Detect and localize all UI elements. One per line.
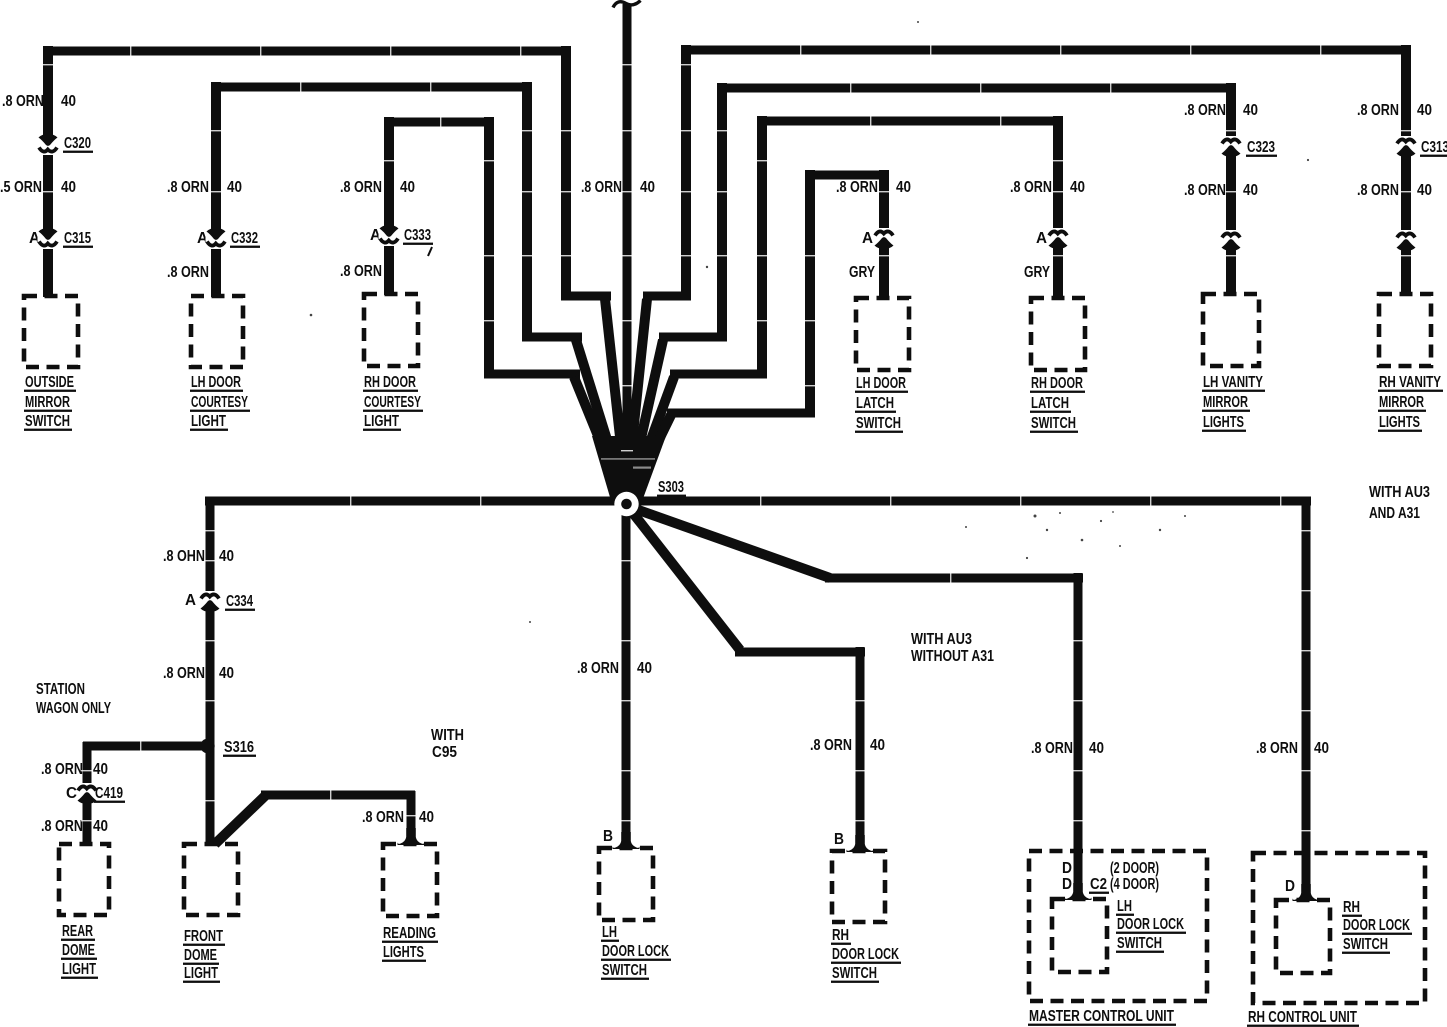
wire S303 down to LH door lock switch — [622, 505, 631, 845]
svg-text:40: 40 — [1089, 740, 1104, 757]
svg-text:LATCH: LATCH — [1031, 395, 1069, 412]
component box LH vanity mirror lights — [1203, 294, 1259, 366]
wire fan leg to busR3 — [757, 116, 767, 378]
connector C419 — [77, 783, 98, 802]
svg-text:40: 40 — [1417, 102, 1432, 119]
noise speckles (decorative) — [1034, 515, 1037, 518]
svg-text:WITH AU3: WITH AU3 — [911, 631, 972, 648]
wire fan leg to busR2 — [717, 83, 727, 341]
gray scan dashes on wedge (decorative) — [601, 458, 655, 460]
svg-text:40: 40 — [1314, 740, 1329, 757]
wire busR3 horizontal (RH door latch feed) — [757, 117, 1061, 126]
connector vanity LH lower — [1221, 230, 1242, 249]
connector C323 — [1221, 136, 1242, 155]
svg-text:D: D — [1062, 860, 1072, 877]
svg-text:READING: READING — [383, 925, 436, 942]
svg-text:.8 ORN: .8 ORN — [167, 179, 209, 196]
svg-text:C313: C313 — [1421, 139, 1447, 156]
wire fan leg to busR4 — [805, 170, 815, 417]
svg-text:RH VANITY: RH VANITY — [1379, 374, 1441, 391]
connector flare master inner — [1065, 883, 1092, 900]
component box rear dome light — [59, 844, 109, 915]
wire fan leg to busR1 — [681, 45, 691, 300]
svg-text:C2: C2 — [1090, 876, 1107, 893]
wire bus3 horizontal (RH door courtesy feed) — [384, 118, 494, 127]
connector flare RH door lock — [847, 835, 874, 852]
svg-text:C332: C332 — [231, 230, 258, 247]
wire busR1 horizontal (RH vanity feed) — [681, 46, 1410, 55]
svg-text:WITH AU3: WITH AU3 — [1369, 484, 1430, 501]
component box LH door lock switch inner — [1052, 899, 1107, 972]
svg-text:C334: C334 — [226, 593, 253, 610]
svg-text:SWITCH: SWITCH — [25, 413, 70, 430]
fan convergence wedge at S303 — [592, 436, 666, 504]
svg-text:B: B — [603, 828, 613, 845]
connector C333 — [379, 228, 400, 247]
svg-text:C315: C315 — [64, 230, 91, 247]
svg-text:SWITCH: SWITCH — [1343, 936, 1388, 953]
svg-text:(2 DOOR): (2 DOOR) — [1110, 860, 1159, 877]
svg-text:WITHOUT A31: WITHOUT A31 — [911, 648, 994, 665]
wire branch to outside mirror switch — [43, 46, 53, 297]
wire fan leg from bus2 — [522, 82, 532, 341]
svg-text:S303: S303 — [658, 479, 684, 496]
wire busR2 horizontal (LH vanity feed) — [717, 84, 1236, 93]
svg-text:MIRROR: MIRROR — [25, 394, 70, 411]
svg-text:40: 40 — [419, 809, 434, 826]
svg-text:C95: C95 — [432, 744, 457, 761]
svg-text:40: 40 — [640, 179, 655, 196]
svg-text:LIGHTS: LIGHTS — [1379, 414, 1420, 431]
svg-text:40: 40 — [896, 179, 911, 196]
svg-text:LIGHT: LIGHT — [62, 961, 96, 978]
svg-text:40: 40 — [1070, 179, 1085, 196]
svg-text:(4 DOOR): (4 DOOR) — [1110, 876, 1159, 893]
svg-text:40: 40 — [400, 179, 415, 196]
svg-text:.8 ORN: .8 ORN — [340, 179, 382, 196]
svg-text:LH: LH — [1117, 898, 1132, 915]
svg-text:LH VANITY: LH VANITY — [1203, 374, 1263, 391]
svg-text:.8 ORN: .8 ORN — [1357, 102, 1399, 119]
connector flare LH door lock — [613, 832, 640, 849]
wire main bus S303 horizontal — [205, 497, 1311, 506]
svg-text:COURTESY: COURTESY — [364, 394, 421, 411]
svg-text:40: 40 — [1243, 102, 1258, 119]
wire busR4 horizontal (LH door latch feed) — [805, 171, 888, 180]
svg-text:RH DOOR: RH DOOR — [1031, 375, 1083, 392]
svg-text:GRY: GRY — [849, 264, 876, 281]
svg-text:.8 ORN: .8 ORN — [810, 737, 852, 754]
svg-text:40: 40 — [219, 665, 234, 682]
component box RH door lock switch — [832, 851, 885, 922]
svg-text:WITH: WITH — [431, 727, 464, 744]
svg-text:40: 40 — [637, 660, 652, 677]
svg-text:.8 ORN: .8 ORN — [581, 179, 622, 196]
svg-text:DOOR LOCK: DOOR LOCK — [832, 946, 899, 963]
svg-text:LATCH: LATCH — [856, 395, 894, 412]
component box RH vanity mirror lights — [1379, 294, 1431, 366]
svg-text:SWITCH: SWITCH — [832, 965, 877, 982]
svg-text:.8 ORN: .8 ORN — [41, 761, 83, 778]
component box RH door latch switch — [1031, 298, 1085, 370]
component box LH door lock switch — [599, 848, 653, 920]
svg-text:SWITCH: SWITCH — [602, 962, 647, 979]
svg-text:GRY: GRY — [1024, 264, 1051, 281]
wire diagonal S303 to RH door lock feed — [629, 508, 740, 650]
component box master control unit outer — [1029, 851, 1207, 1001]
wire S316 to rear dome branch — [83, 742, 209, 751]
wire branch to LH door latch switch — [879, 170, 889, 299]
svg-text:SWITCH: SWITCH — [1117, 935, 1162, 952]
svg-text:DOME: DOME — [62, 942, 95, 959]
svg-text:A: A — [1036, 230, 1047, 247]
svg-text:OUTSIDE: OUTSIDE — [25, 374, 74, 391]
svg-text:D: D — [1062, 876, 1072, 893]
svg-text:LIGHT: LIGHT — [191, 413, 226, 430]
svg-text:.8 ORN: .8 ORN — [1184, 102, 1226, 119]
svg-text:LH DOOR: LH DOOR — [856, 375, 906, 392]
wire diagonal S303 to master control feed — [630, 507, 830, 578]
connector C334 — [200, 591, 221, 610]
wire bus1 horizontal (outside mirror switch feed) — [43, 47, 571, 56]
svg-text:.8 ORN: .8 ORN — [340, 263, 382, 280]
splice S303 — [614, 492, 638, 516]
connector latch RH — [1048, 228, 1069, 247]
svg-text:C419: C419 — [95, 785, 123, 802]
svg-text:MASTER CONTROL UNIT: MASTER CONTROL UNIT — [1029, 1008, 1174, 1025]
connector C313 — [1396, 136, 1417, 155]
svg-text:A: A — [185, 592, 196, 609]
svg-text:LIGHT: LIGHT — [364, 413, 399, 430]
svg-text:.8 ORN: .8 ORN — [362, 809, 404, 826]
svg-text:40: 40 — [61, 179, 76, 196]
svg-text:.5 ORN: .5 ORN — [0, 179, 42, 196]
component box outside mirror switch — [24, 296, 78, 367]
stray mark after C333 — [428, 247, 432, 256]
svg-text:C320: C320 — [64, 135, 91, 152]
wire fan leg from bus1 — [561, 46, 571, 300]
svg-text:40: 40 — [219, 548, 234, 565]
component box RH control unit outer — [1253, 853, 1425, 1003]
svg-text:DOOR LOCK: DOOR LOCK — [1343, 917, 1410, 934]
component box LH door latch switch — [856, 298, 909, 370]
svg-text:S316: S316 — [224, 739, 254, 756]
component box reading lights — [383, 844, 437, 916]
svg-text:MIRROR: MIRROR — [1203, 394, 1248, 411]
svg-text:A: A — [862, 230, 873, 247]
component box RH door lock switch inner — [1276, 900, 1330, 973]
svg-text:C323: C323 — [1247, 139, 1275, 156]
svg-text:COURTESY: COURTESY — [191, 394, 248, 411]
svg-text:MIRROR: MIRROR — [1379, 394, 1424, 411]
component box front dome light — [184, 844, 238, 915]
svg-text:RH: RH — [832, 927, 849, 944]
svg-text:LH: LH — [602, 924, 617, 941]
splice S316 — [200, 739, 214, 753]
svg-text:REAR: REAR — [62, 923, 93, 940]
svg-text:D: D — [1285, 878, 1295, 895]
svg-text:RH DOOR: RH DOOR — [364, 374, 416, 391]
svg-text:SWITCH: SWITCH — [856, 415, 901, 432]
connector flare reading lights — [398, 828, 425, 845]
break symbol at top of center wire — [613, 1, 641, 8]
svg-text:WAGON ONLY: WAGON ONLY — [36, 700, 111, 717]
svg-text:.8 ORN: .8 ORN — [577, 660, 619, 677]
svg-text:RH CONTROL UNIT: RH CONTROL UNIT — [1248, 1009, 1357, 1026]
connector C315 — [38, 231, 59, 250]
wire drop to front dome light — [206, 497, 215, 845]
svg-text:.8 ORN: .8 ORN — [836, 179, 878, 196]
wire diagonal to reading lights — [215, 795, 266, 844]
component box RH door courtesy light — [364, 294, 418, 366]
svg-text:40: 40 — [227, 179, 242, 196]
svg-text:LIGHTS: LIGHTS — [1203, 414, 1244, 431]
svg-text:LIGHT: LIGHT — [184, 965, 218, 982]
svg-text:40: 40 — [61, 93, 76, 110]
svg-text:B: B — [834, 831, 844, 848]
svg-text:.8 ORN: .8 ORN — [1256, 740, 1298, 757]
svg-text:.8 ORN: .8 ORN — [1010, 179, 1052, 196]
svg-text:40: 40 — [93, 818, 108, 835]
connector latch LH — [874, 228, 895, 247]
svg-text:DOOR LOCK: DOOR LOCK — [602, 943, 669, 960]
svg-text:C: C — [66, 785, 77, 802]
svg-text:40: 40 — [1243, 182, 1258, 199]
svg-text:LH DOOR: LH DOOR — [191, 374, 241, 391]
component box LH door courtesy light — [191, 296, 243, 367]
wire branch to LH door courtesy light — [211, 82, 221, 297]
scan nick artifacts (decorative) — [42, 64, 54, 65]
svg-text:SWITCH: SWITCH — [1031, 415, 1076, 432]
svg-text:40: 40 — [1417, 182, 1432, 199]
wire bus2 horizontal (LH door courtesy feed) — [211, 83, 532, 92]
svg-text:.8 ORN: .8 ORN — [1357, 182, 1399, 199]
wire branch to LH vanity mirror lights — [1226, 83, 1236, 295]
svg-text:40: 40 — [93, 761, 108, 778]
wire main bus right drop to RH control unit — [1302, 497, 1311, 896]
svg-text:.8 OHN: .8 OHN — [163, 548, 205, 565]
connector C320 — [38, 137, 59, 156]
connector C332 — [206, 231, 227, 250]
svg-text:DOME: DOME — [184, 947, 217, 964]
svg-text:.8 ORN: .8 ORN — [2, 93, 44, 110]
svg-text:.8 ORN: .8 ORN — [163, 665, 205, 682]
svg-text:.8 ORN: .8 ORN — [1031, 740, 1073, 757]
svg-text:FRONT: FRONT — [184, 928, 223, 945]
svg-text:40: 40 — [870, 737, 885, 754]
svg-text:.8 ORN: .8 ORN — [167, 264, 209, 281]
svg-text:.8 ORN: .8 ORN — [41, 818, 83, 835]
wire fan leg from bus3 — [484, 117, 494, 378]
connector vanity RH lower — [1396, 230, 1417, 249]
svg-text:C333: C333 — [404, 227, 431, 244]
wire branch to RH door latch switch — [1053, 116, 1063, 299]
wire branch to RH vanity mirror lights — [1401, 45, 1411, 295]
svg-text:AND A31: AND A31 — [1369, 505, 1420, 522]
wire branch to RH door courtesy light — [384, 117, 394, 295]
svg-text:STATION: STATION — [36, 681, 85, 698]
svg-text:LIGHTS: LIGHTS — [383, 944, 424, 961]
connector flare RH control inner — [1293, 884, 1320, 901]
wire center vertical from top break to S303 — [623, 4, 632, 505]
svg-text:.8 ORN: .8 ORN — [1184, 182, 1226, 199]
svg-text:DOOR LOCK: DOOR LOCK — [1117, 916, 1184, 933]
svg-text:RH: RH — [1343, 899, 1360, 916]
